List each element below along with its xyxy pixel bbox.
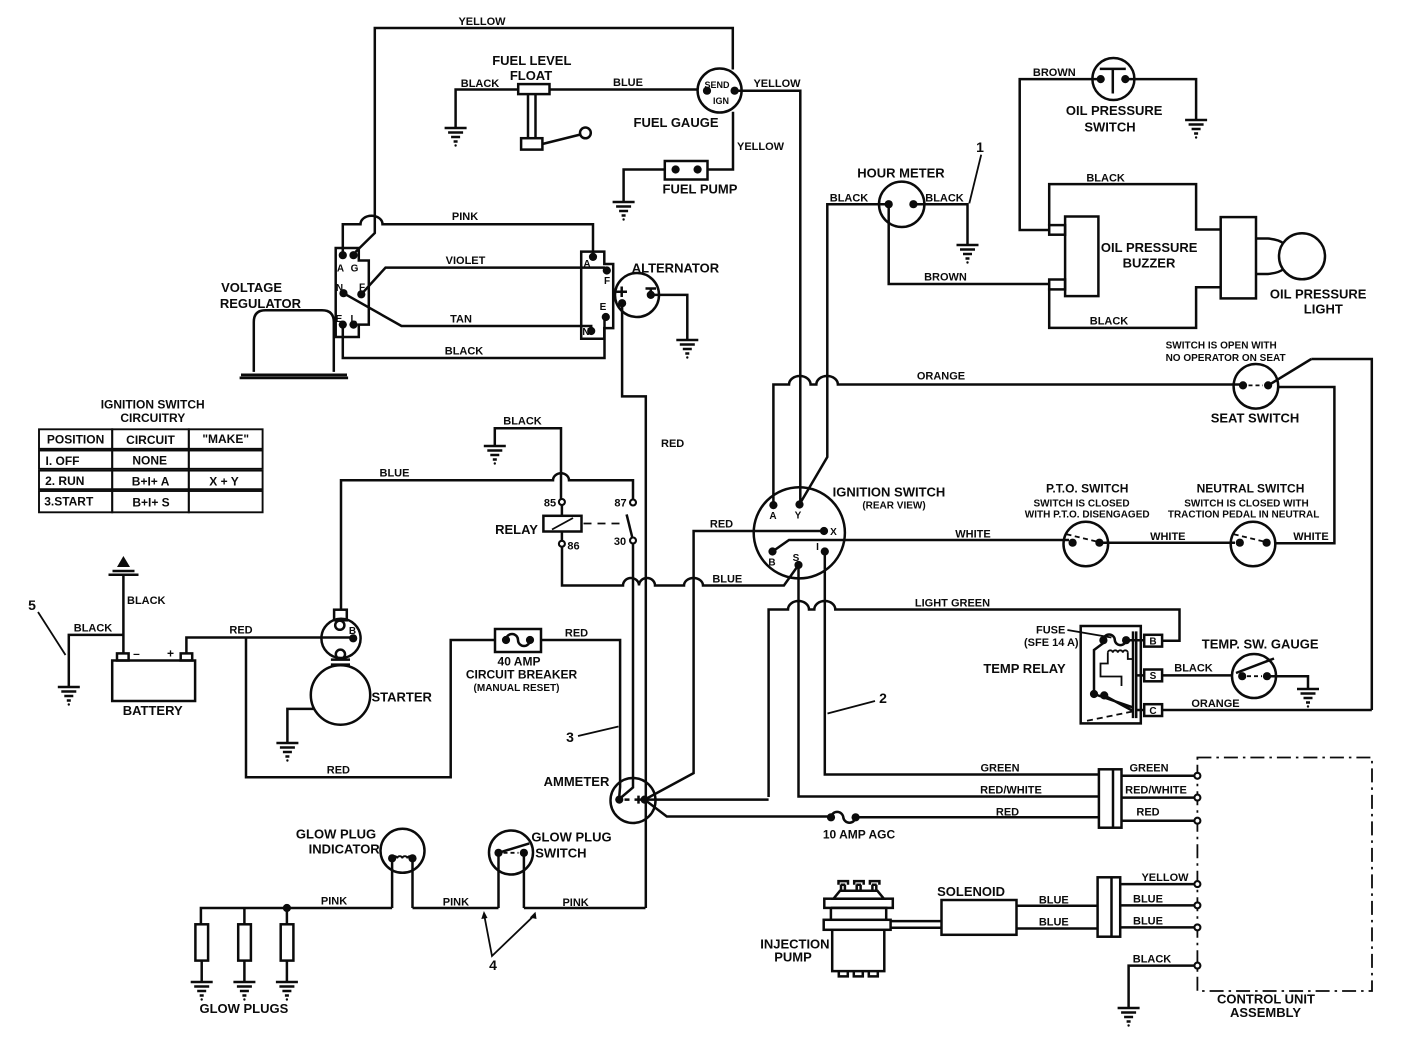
svg-text:YELLOW: YELLOW <box>737 141 785 153</box>
ground alternator <box>676 333 698 359</box>
svg-text:RED: RED <box>327 765 350 777</box>
svg-text:B+I+ S: B+I+ S <box>132 495 169 509</box>
svg-text:ORANGE: ORANGE <box>917 371 965 383</box>
svg-text:VIOLET: VIOLET <box>446 255 486 267</box>
svg-text:SOLENOID: SOLENOID <box>937 884 1005 899</box>
callout 2 <box>828 701 876 714</box>
svg-text:ORANGE: ORANGE <box>1191 698 1239 710</box>
svg-text:BLUE: BLUE <box>1133 894 1163 906</box>
temp sw gauge SW5 <box>1232 654 1276 698</box>
ground fuel pump <box>613 195 635 221</box>
junction dot glow plugs <box>283 904 291 912</box>
svg-text:BLACK: BLACK <box>925 193 964 205</box>
wire BLUE solenoid bottom to connector J2 <box>1017 927 1098 930</box>
svg-text:BLACK: BLACK <box>830 193 869 205</box>
svg-text:"MAKE": "MAKE" <box>202 432 249 446</box>
wire oil switch right to ground <box>1125 79 1196 113</box>
svg-text:PINK: PINK <box>321 896 347 908</box>
svg-text:RED: RED <box>661 438 684 450</box>
svg-text:A: A <box>337 264 344 275</box>
wire BLACK temp relay S to temp gauge <box>1162 674 1232 677</box>
svg-text:1: 1 <box>976 139 984 155</box>
wire BLACK battery minus to left ground <box>69 635 124 680</box>
svg-text:E: E <box>336 314 343 325</box>
svg-text:86: 86 <box>567 541 579 553</box>
svg-text:YELLOW: YELLOW <box>1141 872 1189 884</box>
svg-text:(SFE 14 A): (SFE 14 A) <box>1024 637 1079 649</box>
svg-text:SEAT SWITCH: SEAT SWITCH <box>1211 411 1300 426</box>
fuse F2 10 AMP AGC <box>827 812 860 823</box>
svg-text:BLACK: BLACK <box>1133 954 1172 966</box>
svg-text:CIRCUIT BREAKER: CIRCUIT BREAKER <box>466 668 578 682</box>
wire ignition S down to RED/WHITE <box>799 565 1099 797</box>
svg-text:FUEL LEVEL: FUEL LEVEL <box>492 53 571 68</box>
svg-text:BROWN: BROWN <box>924 272 967 284</box>
wire BLACK regulator E to alternator E <box>343 317 605 358</box>
svg-text:WHITE: WHITE <box>955 529 990 541</box>
svg-text:+: + <box>167 647 174 661</box>
svg-text:ASSEMBLY: ASSEMBLY <box>1230 1005 1301 1020</box>
svg-text:BLACK: BLACK <box>1090 316 1129 328</box>
svg-text:PINK: PINK <box>443 897 469 909</box>
svg-text:TAN: TAN <box>450 314 472 326</box>
wire BROWN hour meter to buzzer <box>889 204 1049 284</box>
svg-text:BLUE: BLUE <box>380 468 410 480</box>
injection pump IP1 <box>824 881 893 976</box>
svg-text:4: 4 <box>489 957 497 973</box>
svg-text:S: S <box>793 553 800 564</box>
injection pump shaft <box>891 921 942 928</box>
ammeter AM1 <box>611 778 656 823</box>
svg-text:SEND: SEND <box>704 80 730 90</box>
wire seat switch blade to orange vertical <box>1311 359 1372 710</box>
wire PINK regulator A to alternator A <box>343 216 593 254</box>
table <box>39 429 263 512</box>
svg-text:BLACK: BLACK <box>1086 173 1125 185</box>
svg-text:G: G <box>351 264 359 275</box>
svg-text:BLUE: BLUE <box>712 574 742 586</box>
svg-text:3: 3 <box>566 729 574 745</box>
svg-text:OIL PRESSURE: OIL PRESSURE <box>1101 240 1198 255</box>
wire temp gauge to ground <box>1267 676 1308 682</box>
wire ORANGE temp relay C to seat switch vertical <box>1162 709 1372 712</box>
svg-text:REGULATOR: REGULATOR <box>220 296 302 311</box>
svg-text:BLUE: BLUE <box>1039 917 1069 929</box>
fuel level float FL1 <box>518 84 591 149</box>
svg-text:GREEN: GREEN <box>980 763 1019 775</box>
wire relay 30 down to ammeter <box>621 543 634 798</box>
starter MTR1 <box>311 610 370 725</box>
temp relay TR1 <box>1081 626 1145 723</box>
svg-text:SWITCH IS CLOSED WITH: SWITCH IS CLOSED WITH <box>1184 498 1308 509</box>
svg-text:40 AMP: 40 AMP <box>498 655 541 669</box>
wire BROWN oil switch to buzzer upper tab <box>1020 79 1101 230</box>
callout 1 <box>969 155 981 204</box>
connector J2 <box>1098 877 1121 936</box>
wire RED alternator + down to ammeter <box>622 303 646 799</box>
svg-text:N: N <box>336 283 343 294</box>
svg-text:GLOW PLUGS: GLOW PLUGS <box>199 1001 288 1016</box>
fuel gauge M1 <box>698 69 742 113</box>
wire ammeter + to light green vertical <box>645 798 769 801</box>
svg-text:RED: RED <box>996 807 1019 819</box>
oil pressure switch OPS1 <box>1092 58 1134 100</box>
svg-text:YELLOW: YELLOW <box>458 16 506 28</box>
svg-text:B: B <box>349 626 356 637</box>
glow plug R2 <box>233 908 255 1001</box>
svg-text:RED: RED <box>229 625 252 637</box>
svg-text:RED: RED <box>1136 807 1159 819</box>
svg-text:STARTER: STARTER <box>371 690 432 705</box>
svg-text:OIL PRESSURE: OIL PRESSURE <box>1270 287 1367 302</box>
svg-text:2: 2 <box>879 690 887 706</box>
connector J1 <box>1099 769 1122 827</box>
battery up ground (chassis) <box>109 556 139 653</box>
svg-text:NO OPERATOR ON SEAT: NO OPERATOR ON SEAT <box>1166 353 1286 364</box>
wire ignition I down to GREEN <box>825 552 1099 775</box>
ground battery left <box>58 680 80 706</box>
PTO switch SW2 <box>1064 522 1109 567</box>
ground oil switch <box>1185 113 1207 139</box>
wires J2 to control unit <box>1120 884 1195 927</box>
svg-text:B: B <box>768 558 775 569</box>
svg-text:BLACK: BLACK <box>127 595 166 607</box>
svg-text:I. OFF: I. OFF <box>46 454 80 468</box>
wire WHITE PTO to neutral switch <box>1099 541 1235 544</box>
ground control unit <box>1118 1001 1140 1027</box>
fuel pump P1 <box>665 161 708 180</box>
svg-text:BROWN: BROWN <box>1033 67 1076 79</box>
voltage regulator VR1 <box>240 310 349 378</box>
svg-text:FLOAT: FLOAT <box>510 68 552 83</box>
temp relay terminal S <box>1144 670 1162 682</box>
svg-text:GREEN: GREEN <box>1129 763 1168 775</box>
wire BLACK hour meter right to ground <box>913 204 967 238</box>
hour meter HM1 <box>879 182 924 227</box>
svg-text:S: S <box>1150 671 1157 682</box>
svg-text:BATTERY: BATTERY <box>123 703 183 718</box>
svg-text:RELAY: RELAY <box>495 522 538 537</box>
temp relay terminal C <box>1144 704 1162 716</box>
svg-text:POSITION: POSITION <box>47 433 104 447</box>
svg-text:BLACK: BLACK <box>445 346 484 358</box>
wire TAN regulator N to alternator N <box>344 293 592 328</box>
circuit breaker CB1 (40 amp) <box>495 629 541 652</box>
svg-text:X: X <box>830 527 837 538</box>
svg-text:FUSE: FUSE <box>1036 624 1065 636</box>
svg-text:E: E <box>600 302 607 313</box>
svg-text:FUEL GAUGE: FUEL GAUGE <box>634 115 719 130</box>
svg-text:A: A <box>583 259 590 270</box>
svg-text:TEMP. SW. GAUGE: TEMP. SW. GAUGE <box>1202 637 1319 652</box>
ground hour meter <box>957 238 979 264</box>
neutral switch SW3 <box>1231 522 1276 567</box>
svg-text:X + Y: X + Y <box>209 475 238 489</box>
wire BLACK buzzer bottom loop to lamp socket <box>1049 287 1221 328</box>
svg-text:OIL PRESSURE: OIL PRESSURE <box>1066 103 1163 118</box>
svg-text:BLACK: BLACK <box>461 78 500 90</box>
svg-text:2. RUN: 2. RUN <box>45 474 84 488</box>
svg-text:PINK: PINK <box>452 211 478 223</box>
svg-text:C: C <box>1149 706 1156 717</box>
alternator ALT1 <box>615 273 659 317</box>
svg-text:BUZZER: BUZZER <box>1123 256 1176 271</box>
svg-text:IGNITION SWITCH: IGNITION SWITCH <box>833 485 946 500</box>
svg-text:LIGHT GREEN: LIGHT GREEN <box>915 598 990 610</box>
wires J1 to control unit <box>1122 776 1195 821</box>
svg-text:BLUE: BLUE <box>1133 916 1163 928</box>
svg-text:LIGHT: LIGHT <box>1304 302 1343 317</box>
svg-text:IGN: IGN <box>713 96 729 106</box>
wire BLACK float left + ground lead <box>456 90 518 122</box>
solenoid SOL1 <box>942 900 1017 935</box>
wire YELLOW fuel gauge to ignition Y (vertical x=800) <box>735 91 801 505</box>
wire PINK ammeter + down to glow plug circuit <box>645 800 648 908</box>
wire VIOLET regulator F to alternator F <box>361 268 606 295</box>
wire YELLOW top (fuel gauge ign to regulator G) <box>356 28 733 252</box>
svg-text:GLOW PLUG: GLOW PLUG <box>531 830 611 845</box>
svg-text:87: 87 <box>614 498 626 510</box>
svg-text:BLUE: BLUE <box>613 77 643 89</box>
svg-text:YELLOW: YELLOW <box>753 78 801 90</box>
wire YELLOW fuel gauge bottom to fuel pump <box>708 112 734 170</box>
voltage regulator terminal block <box>336 248 369 337</box>
svg-text:TEMP RELAY: TEMP RELAY <box>983 661 1066 676</box>
svg-text:N: N <box>582 327 589 338</box>
wire RED battery loop to circuit breaker <box>246 638 495 778</box>
wire BLUE starter to relay 87 <box>341 473 633 610</box>
ground temp gauge <box>1297 682 1319 708</box>
wire BLUE float to fuel gauge <box>550 88 699 91</box>
svg-text:(MANUAL RESET): (MANUAL RESET) <box>474 683 560 694</box>
wire alternator right to ground <box>654 295 687 333</box>
svg-text:WITH P.T.O. DISENGAGED: WITH P.T.O. DISENGAGED <box>1025 510 1150 521</box>
svg-text:L: L <box>350 314 356 325</box>
wire RED ignition X to ammeter <box>645 531 824 800</box>
svg-text:Y: Y <box>795 511 802 522</box>
wire RED ammeter to 10 amp fuse to control unit <box>645 800 1099 818</box>
svg-text:HOUR METER: HOUR METER <box>857 166 945 181</box>
svg-text:RED: RED <box>710 519 733 531</box>
svg-text:INDICATOR: INDICATOR <box>309 842 381 857</box>
glow plug R3 <box>276 908 298 1001</box>
ground relay black <box>484 439 506 465</box>
svg-text:I: I <box>816 542 819 553</box>
svg-text:3.START: 3.START <box>44 495 94 509</box>
alternator terminal block <box>581 252 613 339</box>
svg-text:IGNITION SWITCH: IGNITION SWITCH <box>101 398 205 412</box>
svg-text:CIRCUITRY: CIRCUITRY <box>120 411 185 425</box>
glow plug circuit PINK wire <box>201 908 646 924</box>
svg-text:GLOW PLUG: GLOW PLUG <box>296 827 376 842</box>
oil pressure buzzer BZ1 <box>1049 217 1098 297</box>
svg-text:VOLTAGE: VOLTAGE <box>221 280 282 295</box>
wire LIGHT GREEN to temp relay B <box>769 601 1180 797</box>
ground starter <box>276 736 298 762</box>
glow plug R1 <box>191 924 213 1000</box>
wire BLACK ground to relay 85 <box>495 428 561 499</box>
glow plug switch SW4 <box>489 831 533 909</box>
ground float <box>445 121 467 147</box>
svg-text:TRACTION PEDAL IN NEUTRAL: TRACTION PEDAL IN NEUTRAL <box>1168 510 1319 521</box>
temp relay terminal B <box>1144 635 1162 647</box>
wire RED breaker to ammeter minus <box>541 640 620 796</box>
svg-text:AMMETER: AMMETER <box>544 774 610 789</box>
svg-text:5: 5 <box>28 597 36 613</box>
svg-text:F: F <box>604 276 610 287</box>
svg-text:SWITCH: SWITCH <box>535 846 586 861</box>
wire BLACK hour meter left to ignition Y diagonal <box>800 204 888 503</box>
svg-text:SWITCH IS OPEN WITH: SWITCH IS OPEN WITH <box>1166 341 1277 352</box>
svg-text:(REAR VIEW): (REAR VIEW) <box>862 501 925 512</box>
svg-text:RED/WHITE: RED/WHITE <box>1125 785 1187 797</box>
svg-text:NEUTRAL SWITCH: NEUTRAL SWITCH <box>1197 482 1305 496</box>
wire BLACK control unit to ground <box>1129 966 1195 1001</box>
svg-text:RED/WHITE: RED/WHITE <box>980 785 1042 797</box>
wire BLUE solenoid top to connector J2 <box>1017 905 1098 908</box>
svg-text:WHITE: WHITE <box>1293 531 1328 543</box>
wire RED battery + to starter B <box>186 638 353 654</box>
svg-text:PINK: PINK <box>562 897 588 909</box>
svg-text:ALTERNATOR: ALTERNATOR <box>632 261 720 276</box>
wire ORANGE ignition A to seat switch <box>773 376 1240 502</box>
wire seat switch right to neutral switch (white return) <box>1275 387 1334 543</box>
svg-text:BLACK: BLACK <box>503 416 542 428</box>
svg-text:FUEL PUMP: FUEL PUMP <box>663 182 738 197</box>
svg-text:SWITCH IS CLOSED: SWITCH IS CLOSED <box>1033 498 1129 509</box>
wire BLUE ignition S to relay 86 <box>562 546 799 586</box>
svg-text:WHITE: WHITE <box>1150 531 1185 543</box>
svg-text:BLUE: BLUE <box>1039 895 1069 907</box>
svg-text:P.T.O. SWITCH: P.T.O. SWITCH <box>1046 482 1128 496</box>
wire BLACK buzzer top loop to lamp socket <box>1049 184 1221 229</box>
svg-text:CIRCUIT: CIRCUIT <box>126 433 175 447</box>
ignition switch IGN1 <box>754 487 845 578</box>
wire fuel pump left to ground <box>624 170 665 196</box>
svg-text:RED: RED <box>565 628 588 640</box>
svg-text:–: – <box>133 647 140 661</box>
svg-text:10 AMP AGC: 10 AMP AGC <box>823 828 896 842</box>
control unit assembly box <box>1194 758 1372 992</box>
svg-text:PUMP: PUMP <box>774 950 812 965</box>
svg-text:B: B <box>1149 637 1156 648</box>
svg-text:BLACK: BLACK <box>74 623 113 635</box>
svg-text:B+I+ A: B+I+ A <box>132 475 170 489</box>
oil pressure light LP1 (socket and bulb) <box>1221 217 1325 298</box>
relay K1 <box>543 498 636 553</box>
wire starter to ground <box>287 709 314 736</box>
glow plug indicator DS1 <box>381 829 425 908</box>
wire WHITE ignition B to PTO switch <box>773 540 1070 552</box>
svg-text:A: A <box>769 511 776 522</box>
svg-text:SWITCH: SWITCH <box>1084 120 1135 135</box>
svg-text:NONE: NONE <box>132 453 167 467</box>
svg-text:85: 85 <box>544 498 556 510</box>
svg-text:30: 30 <box>614 536 626 548</box>
seat switch SW1 <box>1234 359 1312 409</box>
battery BT1 <box>112 647 195 702</box>
svg-text:BLACK: BLACK <box>1174 663 1213 675</box>
